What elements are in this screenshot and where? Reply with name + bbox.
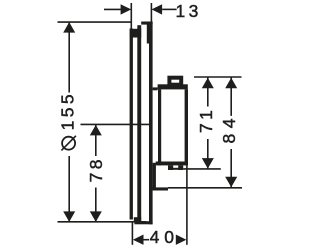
svg-text:84: 84 (219, 113, 239, 144)
svg-text:155: 155 (57, 91, 77, 130)
svg-text:13: 13 (175, 1, 201, 21)
svg-text:71: 71 (196, 107, 216, 133)
svg-text:40: 40 (150, 227, 179, 247)
svg-text:78: 78 (86, 156, 106, 182)
